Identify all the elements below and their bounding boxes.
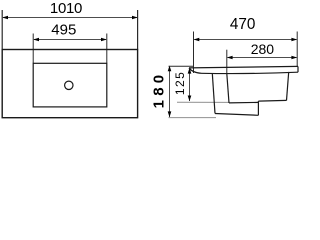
dimension 125 line: [189, 68, 191, 101]
rim right edge: [297, 66, 299, 72]
dimension 1010 left arrow: [2, 16, 8, 20]
svg-text:495: 495: [51, 22, 76, 39]
extension line right (x=137.5, above rect): [137, 10, 139, 50]
rim bottom edge: [202, 72, 299, 73]
svg-text:470: 470: [230, 16, 256, 33]
dimension 1010 line: [3, 17, 137, 19]
extension line 495 right: [106, 34, 108, 64]
inner rectangle (basin bowl outline): [33, 63, 107, 107]
dimension 180 line: [169, 66, 171, 117]
dimension 470 left arrow: [194, 38, 200, 42]
dimension 470 right arrow: [291, 38, 297, 42]
dimension 125 bottom arrow: [188, 96, 192, 102]
dimension 280 left arrow: [227, 56, 233, 60]
bowl inner back wall (left): [227, 74, 229, 103]
extension line 470 left: [193, 32, 195, 74]
dimension 125 top arrow: [188, 68, 192, 74]
extension line left (x=2, above rect): [1, 10, 3, 50]
bowl outer front wall: [212, 73, 215, 113]
dimension 495 left arrow: [33, 38, 39, 42]
extension line 125 bottom (bowl bottom level): [177, 101, 229, 103]
extension line 495 left: [32, 34, 34, 64]
svg-text:280: 280: [251, 41, 275, 57]
extension line 180 bottom: [169, 117, 217, 119]
bowl bottom left segment: [229, 101, 258, 104]
svg-text:180: 180: [150, 71, 167, 109]
dimension 280 right arrow: [291, 56, 297, 60]
svg-text:125: 125: [173, 71, 187, 96]
extension line 470/280 right: [296, 32, 298, 67]
outer rectangle (basin counter outline): [2, 50, 137, 118]
dimension 280 line: [228, 57, 297, 59]
under-bowl step bottom: [215, 114, 258, 116]
dimension 180 bottom arrow: [168, 111, 172, 117]
bowl bottom right segment: [258, 99, 286, 102]
dimension 1010 right arrow: [132, 16, 138, 20]
rim front lip curve: [189, 68, 202, 73]
svg-text:1010: 1010: [50, 0, 82, 17]
bowl right wall: [287, 72, 289, 101]
dimension 495 right arrow: [101, 38, 107, 42]
extension line 180 top: [169, 65, 194, 67]
dimension 180 top arrow: [168, 66, 172, 72]
rim top edge: [189, 66, 298, 68]
dimension 495 line: [34, 39, 106, 41]
under-bowl step right edge: [257, 101, 259, 115]
extension line 280 left: [226, 50, 228, 74]
drain hole circle: [65, 81, 73, 89]
dimension 470 line: [194, 39, 296, 41]
